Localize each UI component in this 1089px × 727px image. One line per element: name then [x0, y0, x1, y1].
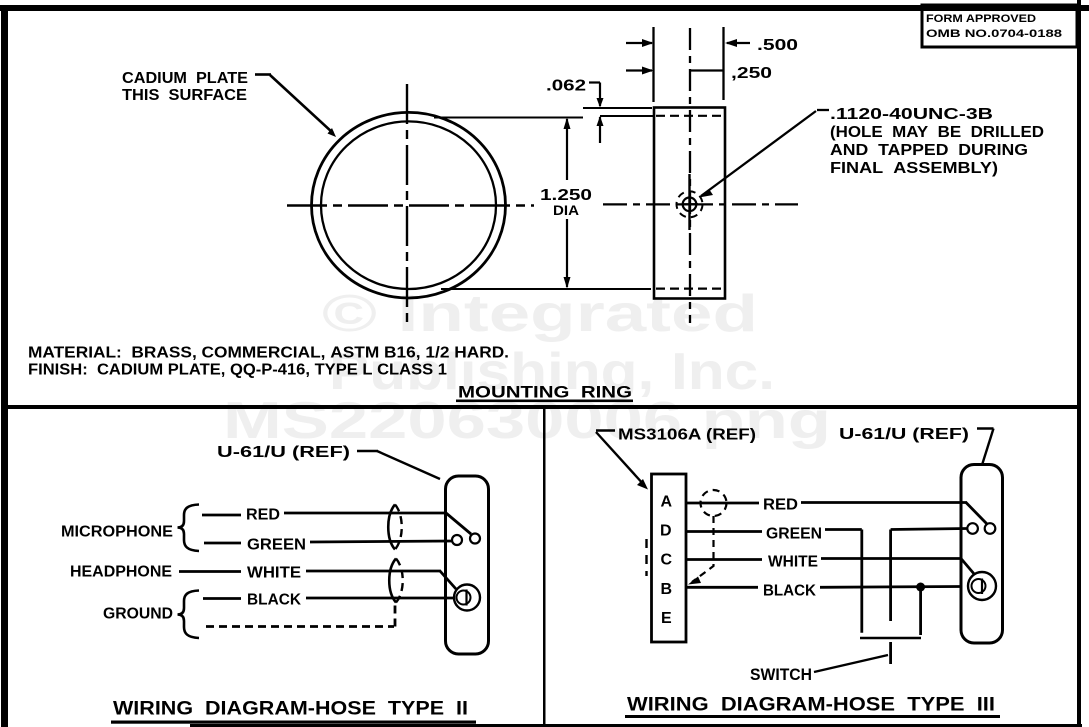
svg-text:RED: RED: [763, 497, 798, 514]
svg-text:,250: ,250: [731, 65, 772, 82]
svg-text:© Integrated: © Integrated: [322, 285, 758, 343]
svg-text:THIS SURFACE: THIS SURFACE: [122, 87, 247, 104]
svg-text:E: E: [661, 610, 672, 627]
svg-text:C: C: [661, 552, 673, 569]
svg-text:WIRING DIAGRAM-HOSE TYPE II: WIRING DIAGRAM-HOSE TYPE II: [113, 699, 468, 720]
svg-text:AND TAPPED DURING: AND TAPPED DURING: [830, 142, 1028, 159]
svg-text:HEADPHONE: HEADPHONE: [70, 564, 172, 581]
svg-text:BLACK: BLACK: [763, 583, 817, 600]
svg-text:.500: .500: [757, 37, 798, 54]
svg-text:OMB NO.0704-0188: OMB NO.0704-0188: [926, 28, 1062, 40]
svg-text:B: B: [661, 581, 673, 598]
svg-text:.062: .062: [546, 78, 586, 95]
svg-text:FINISH: CADIUM PLATE, QQ-P-41: FINISH: CADIUM PLATE, QQ-P-416, TYPE L C…: [28, 362, 447, 379]
svg-text:SWITCH: SWITCH: [750, 666, 812, 684]
svg-text:WHITE: WHITE: [247, 565, 301, 582]
svg-text:MATERIAL: BRASS, COMMERCIAL,: MATERIAL: BRASS, COMMERCIAL, ASTM B16, 1…: [28, 345, 509, 362]
svg-text:D: D: [660, 523, 672, 540]
svg-text:WIRING DIAGRAM-HOSE TYPE II: WIRING DIAGRAM-HOSE TYPE III: [627, 695, 995, 716]
svg-text:U-61/U (REF): U-61/U (REF): [217, 444, 350, 461]
svg-text:FORM APPROVED: FORM APPROVED: [926, 13, 1036, 25]
svg-text:GREEN: GREEN: [766, 526, 822, 543]
svg-text:U-61/U (REF): U-61/U (REF): [839, 426, 969, 443]
svg-text:WHITE: WHITE: [768, 554, 818, 571]
svg-text:DIA: DIA: [553, 202, 579, 218]
svg-text:BLACK: BLACK: [247, 592, 302, 609]
svg-text:GREEN: GREEN: [247, 537, 306, 554]
svg-text:MICROPHONE: MICROPHONE: [61, 524, 173, 541]
svg-text:(HOLE MAY BE DRILLED: (HOLE MAY BE DRILLED: [830, 124, 1044, 141]
svg-text:A: A: [661, 494, 673, 511]
svg-text:MS3106A (REF): MS3106A (REF): [618, 427, 756, 444]
svg-text:GROUND: GROUND: [103, 606, 173, 623]
svg-text:MOUNTING RING: MOUNTING RING: [458, 383, 632, 402]
svg-text:RED: RED: [246, 507, 280, 524]
svg-text:FINAL ASSEMBLY): FINAL ASSEMBLY): [830, 160, 998, 177]
svg-text:CADIUM PLATE: CADIUM PLATE: [122, 70, 248, 87]
svg-text:.1120-40UNC-3B: .1120-40UNC-3B: [830, 106, 993, 123]
